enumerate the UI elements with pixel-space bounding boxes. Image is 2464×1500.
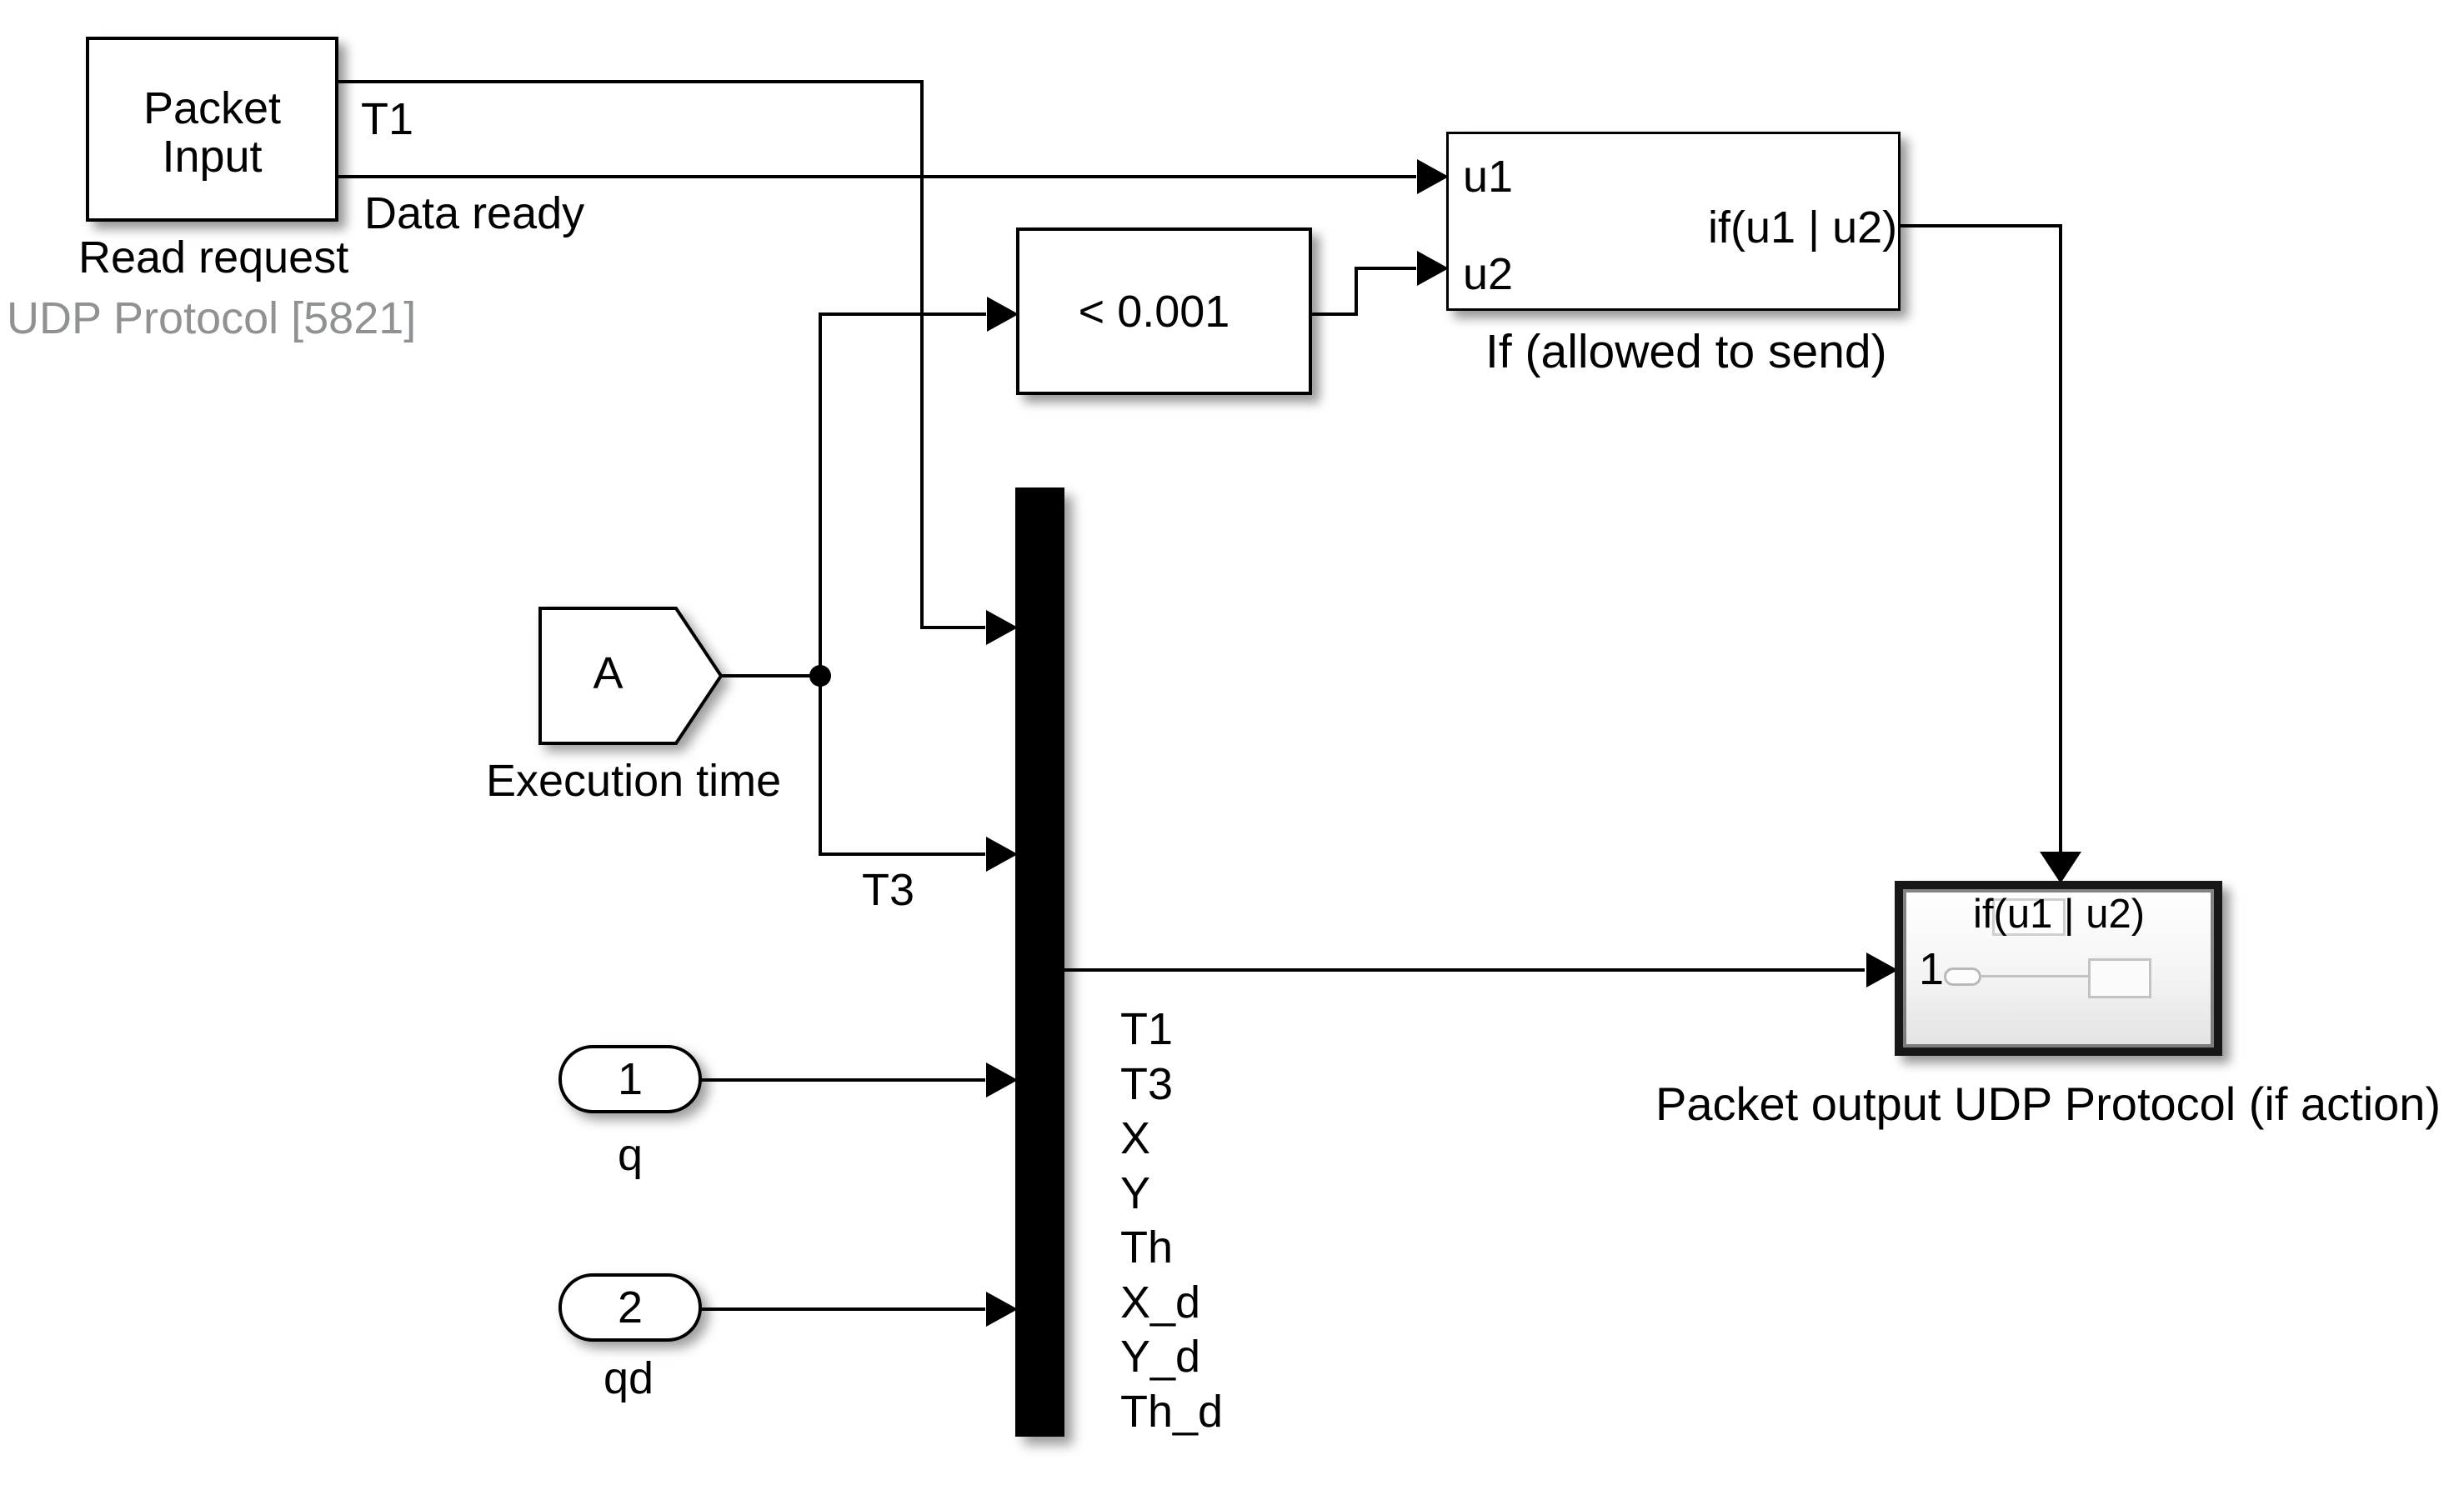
wire Mux output to Packet output block in1 <box>1064 968 1865 972</box>
label mux signal list T1 T3 X Y Th X_d Y_d Th_d <box>1120 1002 1223 1439</box>
icon subsystem preview wire <box>1981 975 2088 977</box>
label < 0.001 <box>1006 289 1302 334</box>
label qd <box>603 1356 654 1401</box>
node junction dot <box>809 665 831 687</box>
arrowhead down into Packet output block <box>2040 852 2081 883</box>
block Compare To Constant < 0.001 <box>1016 227 1312 395</box>
goto-tag A (Execution time) <box>540 608 721 743</box>
wire from tag A to junction <box>721 674 820 677</box>
arrowhead into If u1 <box>1417 159 1449 194</box>
label Read request <box>78 235 348 280</box>
block If (allowed to send) <box>1446 132 1901 311</box>
arrowhead into If u2 <box>1417 251 1449 286</box>
arrowhead into Mux in3 <box>986 1062 1018 1097</box>
arrowhead into Compare block <box>987 297 1019 332</box>
block Packet Input <box>86 37 338 222</box>
label If (allowed to send) <box>1485 328 1887 376</box>
label Packet Input <box>86 84 338 181</box>
arrowhead into Mux in2 <box>986 837 1018 872</box>
label u1 (If input port) <box>1463 154 1513 199</box>
mux Mux (vertical bar) <box>1015 487 1064 1437</box>
label UDP Protocol [5821] <box>7 296 416 341</box>
label T1 (signal name) <box>361 97 413 142</box>
icon subsystem preview block <box>2088 958 2151 998</box>
wire Data ready: Packet Input out2 to If u1 <box>338 175 1416 178</box>
arrowhead into Mux in1 <box>986 610 1018 645</box>
wire T3: junction down to Mux in2 <box>820 676 985 854</box>
label if(u1 | u2) (If output port) <box>1708 205 1897 250</box>
arrowhead into Mux in4 <box>986 1292 1018 1327</box>
label if(u1 | u2) (subsystem banner) <box>1973 894 2145 935</box>
wire qd: Inport 2 to Mux in4 <box>700 1307 985 1311</box>
label 1 (subsystem inport number) <box>1919 947 1944 992</box>
label Execution time <box>486 758 781 803</box>
wire If output down to Packet output block <box>1901 226 2061 852</box>
label u2 (If input port) <box>1463 252 1513 297</box>
arrowhead into Packet output in1 <box>1866 952 1898 987</box>
label q <box>618 1132 643 1177</box>
wire q: Inport 1 to Mux in3 <box>700 1078 985 1082</box>
label 2 (inport qd) <box>560 1275 700 1340</box>
wire Compare output to If u2 <box>1312 268 1416 314</box>
wire junction up to Compare block input <box>820 314 986 676</box>
block Packet output UDP Protocol (if action) <box>1895 881 2222 1056</box>
inport 2 (qd) <box>560 1275 700 1340</box>
label Data ready (signal name) <box>364 191 584 236</box>
icon action-port box behind u1 <box>1992 898 2066 936</box>
label T3 (signal name) <box>862 867 914 912</box>
label A (goto tag) <box>540 651 676 696</box>
inport 1 (q) <box>560 1047 700 1112</box>
wire T1: Packet Input out1 to Mux in1 <box>338 82 985 627</box>
label 1 (inport q) <box>560 1047 700 1112</box>
label Packet output UDP Protocol (if action) <box>1655 1081 2441 1127</box>
icon subsystem preview inport oval <box>1944 967 1981 986</box>
